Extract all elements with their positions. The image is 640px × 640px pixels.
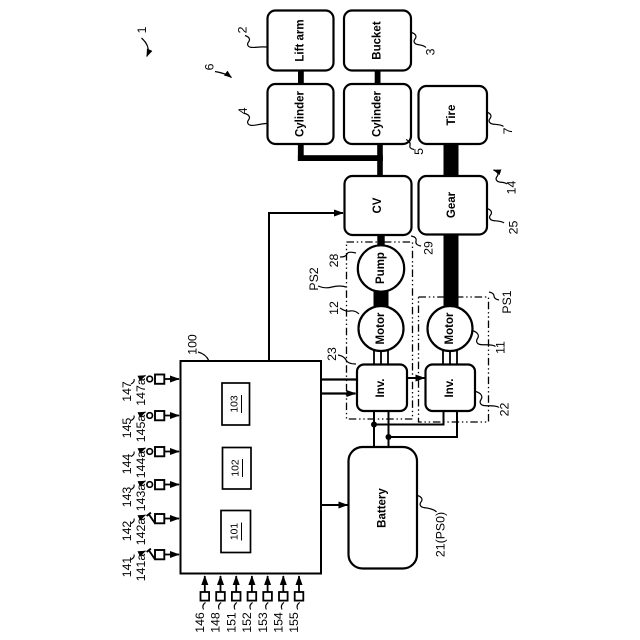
box Tire (7)	[419, 86, 488, 144]
svg-text:Inv.: Inv.	[444, 379, 456, 398]
pump P (28)	[358, 245, 404, 291]
svg-text:102: 102	[231, 459, 242, 476]
wire controller-CV	[269, 213, 343, 361]
svg-text:29: 29	[422, 241, 436, 255]
wire motor1-inv1 3phase	[374, 349, 388, 365]
svg-text:PS2: PS2	[307, 267, 321, 290]
svg-text:143a: 143a	[134, 484, 148, 512]
svg-text:11: 11	[494, 341, 508, 354]
svg-text:14: 14	[505, 181, 519, 195]
svg-text:147: 147	[120, 381, 134, 402]
label 100	[186, 334, 210, 361]
label PS2	[307, 267, 346, 290]
svg-text:Bucket: Bucket	[372, 21, 384, 60]
box 102	[223, 448, 252, 490]
svg-text:Motor: Motor	[444, 312, 456, 344]
box 103	[222, 383, 250, 425]
left input row 144	[120, 447, 179, 478]
svg-text:154: 154	[272, 612, 286, 633]
label 23	[325, 347, 356, 364]
label 21(PS0)	[418, 496, 448, 558]
label 5	[406, 140, 426, 155]
wire bucket-cylinder	[375, 69, 381, 85]
box controller 100	[181, 361, 322, 574]
bottom input 155	[287, 576, 303, 633]
svg-text:142a: 142a	[134, 518, 148, 546]
svg-text:141a: 141a	[134, 554, 148, 582]
svg-text:143: 143	[120, 487, 134, 508]
box Cylinder right	[344, 84, 411, 144]
box 101	[221, 511, 251, 553]
svg-text:CV: CV	[372, 197, 384, 213]
svg-text:148: 148	[209, 612, 223, 633]
svg-text:22: 22	[498, 403, 512, 417]
svg-text:3: 3	[424, 48, 438, 55]
dash-dot box PS2	[347, 242, 413, 419]
box Inv2 (22)	[426, 365, 476, 412]
svg-text:141: 141	[120, 557, 134, 578]
wire inv2 dc a	[374, 411, 444, 425]
bottom input 151	[224, 576, 240, 633]
wire pump-motor1	[374, 291, 389, 307]
svg-text:PS1: PS1	[500, 290, 514, 313]
wire CV-pump	[377, 235, 384, 248]
dash-dot box PS1	[419, 297, 489, 422]
wire inv2 dc b	[389, 411, 458, 437]
wire tire-gear	[444, 143, 459, 177]
node junction a	[371, 422, 377, 428]
box CV (29)	[345, 176, 412, 235]
wire controller-inv1 a	[321, 378, 357, 380]
svg-text:153: 153	[256, 612, 270, 633]
bottom input 152	[240, 576, 256, 633]
svg-text:151: 151	[224, 612, 238, 633]
label 2	[236, 26, 267, 47]
left input row 141 lever	[120, 549, 179, 582]
bottom input 146	[193, 576, 209, 633]
svg-text:144: 144	[120, 454, 134, 475]
svg-text:1: 1	[135, 26, 149, 33]
wire inv1 dc a	[373, 411, 375, 447]
svg-text:Cylinder: Cylinder	[295, 90, 307, 137]
bottom input 148	[209, 576, 225, 633]
motor M1 (12)	[359, 306, 404, 351]
label 29	[411, 236, 436, 255]
svg-text:Pump: Pump	[375, 252, 387, 284]
svg-text:23: 23	[325, 347, 339, 361]
label 22	[476, 392, 512, 417]
label 3	[412, 33, 438, 56]
label 4	[236, 107, 267, 125]
node junction b	[386, 434, 392, 440]
svg-text:21(PS0): 21(PS0)	[434, 512, 448, 557]
svg-text:145: 145	[120, 418, 134, 439]
svg-text:155: 155	[287, 612, 301, 633]
box Bucket (3)	[344, 11, 411, 71]
box Gear (25)	[419, 176, 488, 235]
left input row 147	[120, 375, 179, 406]
left input row 145	[120, 411, 179, 442]
bottom input 153	[256, 576, 272, 633]
wire horizontal hydraulic	[298, 155, 383, 161]
box Lift arm (2)	[268, 11, 334, 71]
svg-text:Battery: Battery	[377, 488, 389, 528]
box Battery 21(PS0)	[349, 447, 418, 569]
label 6	[203, 63, 232, 77]
svg-text:Cylinder: Cylinder	[372, 90, 384, 137]
wire cylinder2-CV	[377, 143, 383, 177]
wire motor2-inv2 3phase	[443, 349, 457, 365]
label 1	[135, 26, 149, 56]
wire liftarm-cylinder	[298, 69, 304, 85]
svg-text:101: 101	[230, 523, 241, 540]
label 7	[487, 112, 516, 134]
label 14	[494, 170, 519, 194]
svg-text:152: 152	[240, 612, 254, 633]
wire controller-battery	[321, 504, 348, 506]
svg-text:12: 12	[327, 301, 341, 315]
svg-text:100: 100	[186, 334, 200, 355]
label PS1	[489, 290, 514, 313]
left input row 143	[120, 480, 179, 511]
wire gear-motor2	[444, 234, 459, 307]
svg-text:146: 146	[193, 612, 207, 633]
wire inv1 dc b	[388, 411, 390, 447]
svg-text:142: 142	[120, 521, 134, 542]
svg-text:2: 2	[236, 26, 250, 33]
wire controller-inv1 b	[321, 392, 356, 394]
svg-text:Inv.: Inv.	[375, 379, 387, 398]
svg-text:6: 6	[203, 63, 217, 70]
bottom input 154	[272, 576, 288, 633]
svg-text:7: 7	[501, 127, 515, 134]
box Inv1 (23)	[357, 365, 407, 412]
label 25	[487, 209, 521, 235]
label 12	[327, 301, 359, 315]
svg-text:Gear: Gear	[446, 191, 458, 218]
svg-text:Motor: Motor	[375, 312, 387, 344]
left input row 142 lever	[120, 513, 179, 546]
svg-text:Lift arm: Lift arm	[295, 19, 307, 61]
svg-text:145a: 145a	[134, 415, 148, 443]
svg-text:Tire: Tire	[446, 105, 458, 126]
svg-text:147a: 147a	[134, 378, 148, 406]
svg-text:103: 103	[230, 395, 241, 412]
label 28	[327, 252, 356, 267]
svg-text:28: 28	[327, 254, 341, 268]
svg-text:144a: 144a	[134, 451, 148, 479]
wire inv1-inv2	[407, 377, 425, 379]
svg-text:25: 25	[507, 221, 521, 235]
svg-text:4: 4	[236, 107, 250, 114]
wire cylinder1 down	[298, 143, 304, 161]
box Cylinder left (4)	[268, 84, 334, 144]
motor M2 (11)	[428, 306, 473, 351]
label 11	[473, 331, 508, 354]
